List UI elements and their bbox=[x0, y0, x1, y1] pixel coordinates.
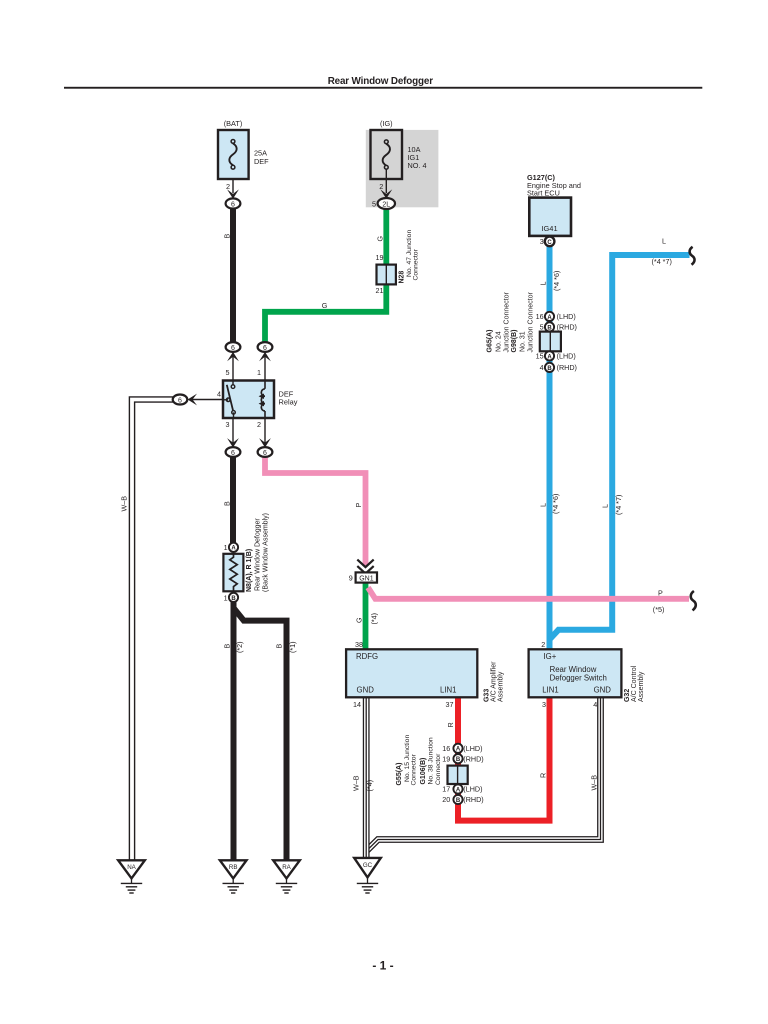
title rule bbox=[64, 87, 702, 89]
oval connector 6 at relay pin4 bbox=[173, 395, 188, 405]
svg-text:4: 4 bbox=[593, 700, 597, 709]
svg-text:9: 9 bbox=[349, 574, 353, 583]
oval connector 6 (BAT) bbox=[226, 198, 241, 208]
gray panel behind IG fuse bbox=[366, 130, 439, 207]
thin lead relay pin 3 bbox=[232, 417, 234, 444]
svg-text:No. 31: No. 31 bbox=[519, 331, 526, 352]
svg-text:IG+: IG+ bbox=[544, 652, 557, 661]
double chevron into GN1 bbox=[357, 560, 373, 574]
svg-text:4: 4 bbox=[540, 363, 544, 372]
svg-text:6: 6 bbox=[231, 450, 235, 457]
svg-text:(*5): (*5) bbox=[653, 605, 665, 614]
wire W-B from G32 GND to ground GC (triple line) bbox=[366, 697, 600, 851]
svg-text:GN1: GN1 bbox=[359, 575, 374, 582]
svg-text:G65(A): G65(A) bbox=[487, 330, 494, 353]
svg-text:DEF: DEF bbox=[254, 157, 269, 166]
svg-text:(LHD): (LHD) bbox=[557, 312, 576, 321]
svg-text:P: P bbox=[658, 589, 663, 598]
svg-text:Rear Window Defogger: Rear Window Defogger bbox=[255, 518, 262, 591]
svg-text:15: 15 bbox=[536, 352, 544, 361]
svg-text:R: R bbox=[446, 722, 455, 727]
svg-text:6: 6 bbox=[263, 450, 267, 457]
svg-text:(*4 *6): (*4 *6) bbox=[552, 271, 561, 291]
svg-text:Junction Connector: Junction Connector bbox=[527, 292, 534, 353]
oval connector 2L (IG) bbox=[378, 198, 395, 209]
svg-text:6: 6 bbox=[263, 345, 267, 352]
svg-text:(*4 *7): (*4 *7) bbox=[614, 495, 623, 515]
svg-text:G: G bbox=[375, 236, 384, 242]
break symbol at L (*4 *7) wire end bbox=[690, 247, 695, 265]
svg-text:B: B bbox=[456, 798, 461, 804]
thin lead BAT fuse to arrow bbox=[232, 167, 234, 193]
arrow into BAT oval bbox=[227, 189, 239, 198]
svg-text:2L: 2L bbox=[382, 201, 390, 208]
arrow left into oval at relay pin4 bbox=[188, 394, 197, 406]
svg-text:G98(B): G98(B) bbox=[511, 330, 518, 353]
fuse 10A IG1 NO.4 (IG) bbox=[371, 130, 403, 179]
svg-text:19: 19 bbox=[442, 754, 450, 763]
svg-text:2: 2 bbox=[257, 420, 261, 429]
svg-text:A: A bbox=[547, 315, 552, 321]
svg-text:(*1): (*1) bbox=[288, 641, 297, 653]
svg-text:(Back Window Assembly): (Back Window Assembly) bbox=[263, 513, 270, 592]
wire G from IG fuse through N28 to relay pin1 connector bbox=[265, 209, 386, 344]
svg-text:RB: RB bbox=[229, 864, 238, 871]
svg-text:(*4 *6): (*4 *6) bbox=[551, 494, 560, 514]
wire W-B from relay pin4 connector to ground NA (double line) bbox=[132, 400, 173, 862]
arrow into IG oval bbox=[380, 189, 392, 198]
svg-text:B: B bbox=[223, 501, 232, 506]
wire R from G33 LIN1 to G32 LIN1 bbox=[458, 697, 550, 821]
svg-text:4: 4 bbox=[217, 389, 221, 398]
svg-text:1: 1 bbox=[257, 368, 261, 377]
svg-text:N8(A), R 1(B): N8(A), R 1(B) bbox=[246, 549, 253, 592]
svg-text:No. 24: No. 24 bbox=[495, 331, 502, 352]
svg-text:Connector: Connector bbox=[435, 753, 442, 785]
svg-text:A: A bbox=[456, 787, 461, 793]
svg-text:A/C Control: A/C Control bbox=[631, 665, 638, 702]
arrow up into oval above relay pin1 bbox=[259, 352, 271, 361]
svg-text:B: B bbox=[547, 325, 552, 331]
junction connector G55(A)/G106(B) circles and box on R wire bbox=[448, 744, 468, 804]
oval connector 6 above relay pin5 bbox=[226, 342, 241, 352]
svg-text:IG41: IG41 bbox=[541, 224, 557, 233]
connector GN1 bbox=[356, 572, 377, 582]
svg-text:(*4): (*4) bbox=[365, 780, 374, 792]
wire B thick from relay lower connector to defogger circle A bbox=[230, 456, 236, 544]
svg-text:3: 3 bbox=[540, 237, 544, 246]
arrow down into oval below relay pin3 bbox=[227, 438, 239, 447]
svg-text:(*4 *7): (*4 *7) bbox=[652, 257, 672, 266]
svg-text:(RHD): (RHD) bbox=[557, 363, 577, 372]
svg-text:RA: RA bbox=[282, 864, 291, 871]
svg-text:L: L bbox=[601, 504, 610, 508]
thin lead relay pin 1 bbox=[264, 355, 266, 381]
svg-text:LIN1: LIN1 bbox=[440, 686, 456, 695]
svg-text:A/C Amplifier: A/C Amplifier bbox=[490, 661, 497, 702]
svg-text:G106(B): G106(B) bbox=[420, 758, 427, 785]
ground GC bbox=[354, 858, 381, 893]
svg-text:3: 3 bbox=[542, 700, 546, 709]
svg-text:B: B bbox=[223, 234, 232, 239]
wire L (*4 *7) from right break down joining switch pin 2 bbox=[550, 255, 690, 640]
svg-text:Rear Window Defogger: Rear Window Defogger bbox=[328, 76, 434, 87]
svg-text:NO. 4: NO. 4 bbox=[408, 161, 427, 170]
junction connector G65(A)/G98(B) circles and box bbox=[540, 312, 561, 372]
thin lead relay pin 4 bbox=[190, 399, 224, 401]
svg-text:5: 5 bbox=[226, 368, 230, 377]
svg-text:(BAT): (BAT) bbox=[224, 119, 243, 128]
svg-text:(LHD): (LHD) bbox=[463, 785, 482, 794]
wire P (*5) horizontal to right break bbox=[368, 588, 689, 599]
arrow down into oval below relay pin2 bbox=[259, 438, 271, 447]
svg-text:B: B bbox=[274, 644, 283, 649]
wire P from relay pin2 connector to GN1 bbox=[265, 456, 366, 566]
svg-text:- 1 -: - 1 - bbox=[372, 959, 393, 973]
svg-text:(LHD): (LHD) bbox=[557, 352, 576, 361]
oval connector 6 above relay pin1 bbox=[258, 342, 273, 352]
svg-text:N28: N28 bbox=[399, 271, 406, 284]
svg-text:5: 5 bbox=[372, 199, 376, 208]
svg-text:16: 16 bbox=[442, 744, 450, 753]
svg-text:1: 1 bbox=[224, 543, 228, 552]
svg-text:W–B: W–B bbox=[590, 775, 599, 791]
G32 rear window defogger switch box bbox=[529, 649, 622, 697]
thin lead IG fuse to arrow bbox=[385, 167, 387, 193]
svg-text:L: L bbox=[539, 503, 548, 507]
junction connector N28 bbox=[377, 265, 396, 285]
svg-text:RDFG: RDFG bbox=[356, 652, 378, 661]
svg-text:Assembly: Assembly bbox=[638, 671, 645, 702]
relay DEF bbox=[223, 381, 274, 419]
svg-text:2: 2 bbox=[379, 182, 383, 191]
svg-text:R: R bbox=[539, 773, 548, 778]
wire B (*1) branch to ground RA bbox=[234, 609, 287, 862]
svg-text:5: 5 bbox=[540, 323, 544, 332]
svg-text:(IG): (IG) bbox=[380, 119, 393, 128]
svg-text:Connector: Connector bbox=[412, 248, 419, 280]
svg-text:(*2): (*2) bbox=[235, 641, 244, 653]
svg-text:(RHD): (RHD) bbox=[463, 754, 483, 763]
svg-text:G: G bbox=[354, 617, 363, 623]
svg-text:6: 6 bbox=[178, 397, 182, 404]
arrow up into oval above relay pin5 bbox=[227, 352, 239, 361]
svg-text:Relay: Relay bbox=[279, 398, 298, 407]
rear window defogger resistor N8(A) R1(B) bbox=[223, 543, 243, 602]
svg-text:A: A bbox=[231, 546, 236, 552]
svg-text:14: 14 bbox=[353, 700, 361, 709]
svg-text:3: 3 bbox=[226, 420, 230, 429]
svg-text:B: B bbox=[456, 757, 461, 763]
svg-text:20: 20 bbox=[442, 795, 450, 804]
wire B (*2) from defogger circle B to ground RB bbox=[231, 601, 237, 861]
ground RB bbox=[220, 860, 247, 893]
svg-text:No. 38 Junction: No. 38 Junction bbox=[428, 737, 435, 784]
svg-text:NA: NA bbox=[127, 864, 136, 871]
svg-text:A: A bbox=[547, 354, 552, 360]
svg-text:W–B: W–B bbox=[119, 496, 128, 512]
svg-text:L: L bbox=[539, 282, 548, 286]
svg-text:P: P bbox=[354, 503, 363, 508]
ground NA bbox=[118, 860, 145, 893]
svg-text:A: A bbox=[456, 747, 461, 753]
svg-text:GND: GND bbox=[594, 686, 612, 695]
svg-text:B: B bbox=[231, 596, 236, 602]
svg-text:G: G bbox=[322, 301, 328, 310]
svg-text:19: 19 bbox=[376, 253, 384, 262]
svg-text:B: B bbox=[223, 644, 232, 649]
svg-text:C: C bbox=[547, 240, 552, 246]
svg-text:16: 16 bbox=[536, 312, 544, 321]
ground RA bbox=[273, 860, 300, 893]
break symbol at P (*5) wire end bbox=[691, 591, 696, 610]
oval connector 6 below relay pin3 bbox=[226, 447, 241, 457]
svg-text:6: 6 bbox=[231, 201, 235, 208]
svg-text:1: 1 bbox=[224, 593, 228, 602]
svg-text:21: 21 bbox=[376, 286, 384, 295]
fuse 25A DEF (BAT) bbox=[218, 130, 249, 179]
svg-text:(*4): (*4) bbox=[369, 613, 378, 625]
svg-text:G55(A): G55(A) bbox=[396, 763, 403, 786]
thin lead relay pin 5 bbox=[232, 355, 234, 381]
svg-text:2: 2 bbox=[226, 182, 230, 191]
svg-text:GC: GC bbox=[363, 862, 373, 869]
pin C circle under IG41 bbox=[545, 237, 555, 247]
svg-text:Assembly: Assembly bbox=[497, 671, 504, 702]
wire W-B (*4) from G33 GND to ground GC (triple line) bbox=[363, 697, 370, 860]
oval connector 6 below relay pin2 bbox=[258, 447, 273, 457]
wire B thick from BAT oval to relay connector bbox=[230, 208, 236, 344]
svg-text:Defogger Switch: Defogger Switch bbox=[550, 673, 607, 682]
svg-text:L: L bbox=[662, 236, 666, 245]
thin lead relay pin 2 bbox=[264, 417, 266, 444]
wire G (*4) from GN1 to RDFG pin 38 bbox=[363, 582, 369, 650]
svg-text:17: 17 bbox=[442, 785, 450, 794]
svg-text:W–B: W–B bbox=[352, 775, 361, 791]
svg-text:(RHD): (RHD) bbox=[557, 323, 577, 332]
ECU G127(C) box bbox=[529, 198, 571, 236]
svg-text:Junction Connector: Junction Connector bbox=[503, 292, 510, 353]
svg-text:GND: GND bbox=[357, 686, 375, 695]
svg-text:LIN1: LIN1 bbox=[542, 686, 558, 695]
svg-text:2: 2 bbox=[541, 640, 545, 649]
svg-text:B: B bbox=[547, 366, 552, 372]
svg-text:6: 6 bbox=[231, 345, 235, 352]
svg-text:37: 37 bbox=[446, 700, 454, 709]
wire L from IG41 pin C down to switch pin 2 bbox=[547, 245, 553, 650]
svg-text:(LHD): (LHD) bbox=[463, 744, 482, 753]
svg-text:(RHD): (RHD) bbox=[463, 795, 483, 804]
svg-text:Connector: Connector bbox=[411, 753, 418, 785]
svg-text:38: 38 bbox=[355, 640, 363, 649]
G33 A/C amplifier box bbox=[346, 649, 477, 697]
svg-text:Start ECU: Start ECU bbox=[527, 188, 560, 197]
